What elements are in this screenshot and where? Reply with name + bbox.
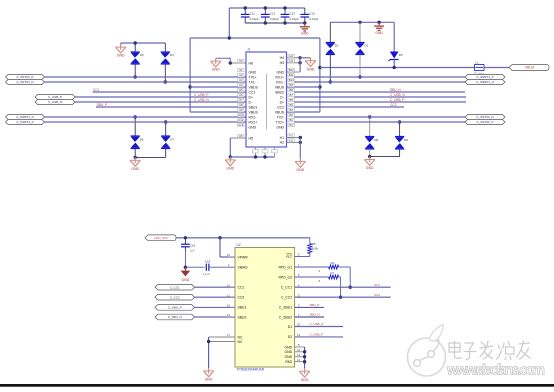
svg-text:C_SSRX1_N: C_SSRX1_N [476,80,494,84]
tvs diode D8 with leads [368,115,371,118]
svg-text:C13: C13 [290,12,296,16]
ground arrow connector bottom [225,157,235,171]
bottom black bar [0,384,554,387]
wire H4 stub [287,57,301,59]
resistor R5 with leads [309,238,311,244]
wire C_SSTX2_N line [294,116,465,118]
svg-text:C_SSRX1_P: C_SSRX1_P [16,120,33,124]
svg-text:U2: U2 [237,243,241,247]
wire H1 H2 drop to gnd [299,138,301,159]
svg-text:SBU_N: SBU_N [310,313,320,317]
ground arrow H1 H2 [295,159,305,173]
wire D1 bottom lead [329,55,331,83]
ground bars D rail [374,22,384,35]
svg-text:A6: A6 [239,93,243,97]
svg-text:GND: GND [131,167,139,171]
svg-text:B4: B4 [289,108,293,112]
capacitor C13 [281,8,290,23]
svg-text:A3: A3 [239,78,243,82]
ground arrow shield right [305,58,315,72]
svg-text:C_USB_P: C_USB_P [310,333,324,337]
node VBUS A4 junction [188,85,191,88]
svg-text:H3: H3 [280,61,284,65]
svg-text:D8: D8 [374,138,378,142]
svg-text:C11: C11 [250,12,255,16]
wire D2 bottom lead [359,55,361,78]
svg-text:C_SSRX1_N: C_SSRX1_N [16,115,34,119]
tvs diode D2 [355,43,365,55]
wire H6 shield stub [230,62,246,64]
wire D2 top lead [359,22,361,42]
wire C_SSTX2_P line [294,121,465,123]
svg-text:D6: D6 [140,138,144,142]
wire GND pins bus [295,346,305,348]
svg-text:A11: A11 [238,118,243,122]
port C_SBU_P [155,305,195,311]
port C_SBU_N [155,314,195,320]
svg-text:J1: J1 [247,48,251,52]
svg-text:NC: NC [238,340,243,344]
svg-text:D4: D4 [170,53,174,57]
wire NC1 stub [209,336,235,338]
svg-text:0.01µF: 0.01µF [290,17,299,21]
svg-text:SBU_N: SBU_N [390,88,401,92]
capacitor C12 [261,8,270,23]
svg-text:B9: B9 [289,83,293,87]
wire SBU_P line [96,106,246,108]
wire VBUS pin A4 [190,86,246,88]
svg-text:0.01µF: 0.01µF [250,17,259,21]
wire CC2 line right [294,106,404,108]
wire C_CC1 to chip [195,286,236,288]
ground arrow D3 D4 [120,43,122,45]
wire C_SSTX1_N line [45,81,247,83]
wire NC drop corner [208,337,210,368]
chip U2 right pin names [279,254,293,364]
port C_SSTX1_P [6,74,45,79]
node C16 C18 gnd junction [184,266,187,269]
ground arrow D6 D7 [130,157,140,171]
svg-text:PAD: PAD [285,360,292,364]
wire H5 stub [230,137,246,139]
svg-text:100k: 100k [312,247,319,251]
port C_SSTX1_N [6,79,45,84]
svg-text:GND: GND [285,355,293,359]
wire C_SBU2 line [295,316,324,318]
ground arrow H6 [211,58,221,71]
svg-text:GND: GND [307,67,315,71]
svg-text:D-: D- [249,100,253,104]
port C_SSTX2_N [465,114,505,119]
wire C_SSRX1_P line left [45,121,247,123]
svg-text:GND: GND [375,31,383,35]
watermark chinese text strokes [449,341,531,360]
wire C_USB_N line left [75,101,246,103]
svg-text:0.01µF: 0.01µF [270,17,279,21]
svg-text:VBUS: VBUS [525,66,535,70]
wire C_USB_N line right [294,96,466,98]
svg-text:GND: GND [249,125,257,129]
wire D9 bottom to D8 [370,156,400,158]
svg-text:CC2: CC2 [390,103,397,107]
wire C18 to VBIAS [209,266,235,268]
wire D7 bottom to D6 [135,156,166,158]
port C_CC2 [155,294,195,300]
connector pin numbers left [238,59,244,138]
node D8 D9 gnd junction [368,155,371,158]
ground arrow NC [203,368,213,382]
svg-text:GND: GND [301,378,309,382]
svg-text:VBUS: VBUS [249,110,259,114]
svg-text:SBU2: SBU2 [275,90,284,94]
ground arrow C16 [181,267,191,282]
wire D1 line [295,326,343,328]
svg-text:D+: D+ [280,100,284,104]
svg-text:A1: A1 [239,68,243,72]
wire connector bottom shield [230,156,274,158]
wire C_SBU_P to chip [195,306,236,308]
svg-text:D1: D1 [335,44,339,48]
svg-text:H2: H2 [280,141,284,145]
svg-text:A10: A10 [238,113,243,117]
capacitor C11 [241,8,250,23]
svg-text:C_SBU1: C_SBU1 [279,306,292,310]
svg-text:C_USB_N: C_USB_N [48,100,62,104]
svg-text:B5: B5 [289,103,293,107]
node VPWR tap [218,236,221,239]
wire VBUS line to L1 [320,67,475,69]
connector bottom pins [253,147,278,157]
node H6 junction [229,61,232,64]
port C_USB_P left [35,94,75,99]
svg-text:R7: R7 [331,271,335,275]
connector pin names right [275,56,285,145]
ground arrow U2 [299,368,309,382]
node C16 tap [184,236,187,239]
svg-text:TPD6S300ARUKR: TPD6S300ARUKR [237,368,265,372]
wire cap bottom GND rail [245,22,305,24]
node D3 on SSTX1_P [134,75,137,78]
node D4 on SSTX1_N [164,80,167,83]
svg-text:C_SBU2: C_SBU2 [279,315,292,319]
tvs diode D7 with leads [164,120,167,123]
wire H2 stub [287,141,301,143]
svg-text:B7: B7 [289,93,293,97]
node VBUS mid rail junction [228,36,231,39]
svg-text:C_USB_N: C_USB_N [194,98,209,102]
wire CC1 line [93,91,247,93]
wire VPWR stub [220,256,235,258]
wire C_CC2 line right [295,296,391,298]
svg-text:C_SSTX2_N: C_SSTX2_N [476,115,493,119]
svg-text:GND: GND [249,70,257,74]
svg-text:C18: C18 [205,259,211,263]
svg-text:VPWR: VPWR [238,255,249,259]
svg-text:LDO_3V3: LDO_3V3 [154,236,168,240]
chip left pin numbers [227,253,235,337]
capacitor C16 [181,238,190,251]
svg-text:C_SSTX2_P: C_SSTX2_P [476,120,493,124]
node H3 junction [298,61,301,64]
node GND pin junctions [303,350,306,353]
wire D4 top lead [164,43,166,52]
svg-text:C_CC1: C_CC1 [281,286,292,290]
node bottom pin 1 [254,155,257,158]
wire H6 to GND jog [216,58,231,63]
svg-text:RX2-: RX2- [249,115,257,119]
wire VBUS top rail [229,7,304,9]
svg-text:A12: A12 [238,123,243,127]
svg-text:H4: H4 [289,54,293,58]
wire C_SBU1 line [295,306,324,308]
svg-text:CC2: CC2 [374,293,380,297]
wire VBUS pin B4 [287,111,320,113]
port C_CC1 [155,284,195,290]
svg-text:A7: A7 [239,98,243,102]
node VBUS rail junction C13 [283,6,286,9]
svg-text:D9: D9 [404,138,408,142]
svg-text:C_USB_P: C_USB_P [194,93,209,97]
node H5 shield junction [229,155,232,158]
svg-text:C_USB_P: C_USB_P [390,98,405,102]
svg-text:GND: GND [285,350,293,354]
node D6 D7 gnd junction [134,156,137,159]
port C_SSRX1_N right [465,79,505,84]
wire VBUS pin B9 [287,86,320,88]
svg-text:SBU_P: SBU_P [310,303,320,307]
svg-text:GND: GND [276,125,284,129]
svg-text:GND: GND [205,378,213,382]
svg-text:GND: GND [276,70,284,74]
svg-text:C_CC2: C_CC2 [281,296,292,300]
svg-text:RPD_G1: RPD_G1 [279,265,293,269]
wire NC2 stub [209,341,235,343]
connector divider [266,74,268,130]
wire D2 line [295,336,343,338]
svg-text:27 ohm: 27 ohm [474,71,485,75]
wire LDO_3V3 rail [176,237,310,239]
svg-text:SBU_P: SBU_P [97,103,107,107]
svg-text:D-: D- [280,95,284,99]
svg-text:RX2+: RX2+ [249,120,258,124]
svg-text:A9: A9 [239,108,243,112]
wire C_USB_P line left [75,96,246,98]
svg-text:C_SBU_P: C_SBU_P [168,306,182,310]
svg-text:C_SSTX1_N: C_SSTX1_N [16,80,33,84]
svg-text:H1: H1 [280,136,284,140]
svg-text:GND: GND [301,32,309,36]
svg-text:A2: A2 [239,73,243,77]
ground bars below C14 [300,23,310,36]
ground arrow D8 D9 [365,157,375,171]
node VBUS B9 junction [318,85,321,88]
svg-text:C16: C16 [190,243,196,247]
svg-text:SBU1: SBU1 [238,306,247,310]
ground rail D1 D2 D5 [330,21,394,23]
inductor L1 [475,65,485,71]
svg-text:C_USB_N: C_USB_N [310,322,324,326]
svg-text:GND: GND [285,345,293,349]
svg-text:B8: B8 [289,88,293,92]
node VBUS line junction [318,66,321,69]
svg-text:TX1+: TX1+ [249,75,257,79]
svg-text:B1: B1 [289,123,293,127]
wire H3/H4 drop to B12 [299,58,301,72]
svg-text:VBUS: VBUS [275,110,285,114]
wire C_SSRX1_N line right [294,81,465,83]
wire C_CC2 to chip [195,296,236,298]
svg-text:D3: D3 [140,53,144,57]
svg-text:GND: GND [212,68,220,72]
svg-text:L1: L1 [476,61,480,65]
port C_USB_N left [35,99,75,104]
node R6 CC1 junction [349,286,352,289]
wire H5 drop [229,138,231,157]
svg-text:B12: B12 [289,68,294,72]
svg-text:A5: A5 [239,88,243,92]
svg-text:RX1+: RX1+ [275,75,284,79]
svg-text:GND: GND [296,168,304,172]
port C_SSRX1_P left [6,119,45,124]
wire R7 to CC2 line [340,277,342,297]
chip U2 left pin names [238,255,249,344]
svg-text:D1: D1 [288,325,292,329]
svg-text:C12: C12 [270,12,276,16]
svg-text:C_SBU_N: C_SBU_N [168,315,182,319]
power tag LDO_3V3 [145,235,176,241]
diode D5 [388,52,398,62]
tvs diode D4 [160,52,170,64]
wire VBUS vertical to mid rail [228,8,230,38]
svg-text:1µF: 1µF [190,249,195,253]
chip U2 body [235,248,295,368]
svg-text:B10: B10 [289,78,294,82]
svg-text:D+: D+ [249,95,253,99]
svg-text:R5: R5 [312,242,316,246]
tvs diode D3 [130,52,140,64]
svg-text:C_SSRX1_P: C_SSRX1_P [476,75,493,79]
wire D4 bottom lead [164,64,166,83]
svg-text:CC1: CC1 [374,283,380,287]
svg-text:TX1-: TX1- [249,80,256,84]
svg-text:VBUS: VBUS [249,85,259,89]
svg-text:C_CC2: C_CC2 [170,295,180,299]
node VBUS rail junction C12 [264,6,267,9]
svg-text:H3: H3 [289,59,293,63]
wire C_SSTX1_P line [45,76,247,78]
svg-text:B6: B6 [289,98,293,102]
node bottom pin 2 [263,155,266,158]
svg-text:VBUS: VBUS [275,85,285,89]
wire VPWR drop [219,238,221,257]
connector J1 body [246,52,287,147]
tvs diode D6 with leads [134,115,137,118]
wire C_SSRX1_P line right [294,76,465,78]
node R7 CC2 junction [339,296,342,299]
wire L1 to VBUS tag [484,67,509,69]
svg-text:B11: B11 [289,73,294,77]
svg-text:A8: A8 [239,103,243,107]
svg-text:A4: A4 [239,83,243,87]
tvs diode D1 [325,43,335,55]
resistor R7 with leads [295,276,329,278]
wire C_USB_P line right [294,101,466,103]
tvs diode D9 with leads [398,120,401,123]
resistor R6 with leads [295,266,329,268]
wire VBUS left drop to A4/A9 [189,38,191,112]
chip right pin numbers [295,253,302,362]
connector pin numbers right [288,54,294,143]
svg-text:CC1: CC1 [93,88,100,92]
svg-text:D7: D7 [170,138,174,142]
svg-text:B3: B3 [289,113,293,117]
svg-text:0.01µF: 0.01µF [309,17,318,21]
svg-text:D5: D5 [399,53,403,57]
wire R6 to CC1 line [349,267,351,287]
node VBUS rail junction C11 [244,6,247,9]
wire C18 left lead [185,266,204,268]
svg-text:C_USB_N: C_USB_N [390,93,405,97]
svg-text:H6: H6 [249,61,253,65]
capacitor C18 horizontal [206,264,209,271]
wire C_SSRX1_N line left [45,116,247,118]
svg-text:CC2: CC2 [238,296,245,300]
port C_SSRX1_N left [6,114,45,119]
wire to right GND arrow [300,57,310,59]
svg-text:C_USB_P: C_USB_P [48,95,62,99]
wire D5 bottom lead [393,60,395,68]
svg-text:GND: GND [117,54,125,58]
svg-text:RPD_G2: RPD_G2 [279,275,293,279]
wire D1 top lead [329,22,331,42]
wire C16 to gnd node [184,251,186,267]
node NC junction [207,340,210,343]
wire C_SBU_N to chip [195,316,236,318]
svg-text:H4: H4 [280,56,284,60]
wire VBUS right drop to B9/B4 [319,38,321,112]
svg-text:www.elecfans.com: www.elecfans.com [446,363,545,379]
node H4 junction [298,56,301,59]
svg-text:TX2+: TX2+ [276,120,284,124]
wire H1 stub [287,137,301,139]
svg-text:GND: GND [182,278,190,282]
svg-text:C_CC1: C_CC1 [170,285,180,289]
wire D3 top lead [134,43,136,52]
power tag VBUS [509,65,549,71]
wire H3 stub [287,62,301,64]
svg-text:R6: R6 [331,261,335,265]
svg-text:H6: H6 [239,59,243,63]
node D5 VBUS junction [393,66,396,69]
wire D3 D4 top ground rail [121,42,166,44]
node H2 junction [299,141,302,144]
wire B12 GND stub [287,71,301,73]
connector pin names left [249,61,259,140]
svg-text:NC: NC [238,335,243,339]
capacitor C14 [300,8,309,23]
svg-text:GND: GND [366,166,374,170]
wire C_CC1 line right [295,286,391,288]
node D2 to RX1+ line [358,75,361,78]
node D1 to RX1- line [329,80,332,83]
port C_SSTX2_P [465,119,505,124]
svg-text:B2: B2 [289,118,293,122]
wire D5 top lead [393,22,395,51]
svg-text:VBIAS: VBIAS [238,265,249,269]
svg-text:CC1: CC1 [238,286,245,290]
svg-text:H5: H5 [249,136,253,140]
svg-text:GND: GND [226,167,234,171]
